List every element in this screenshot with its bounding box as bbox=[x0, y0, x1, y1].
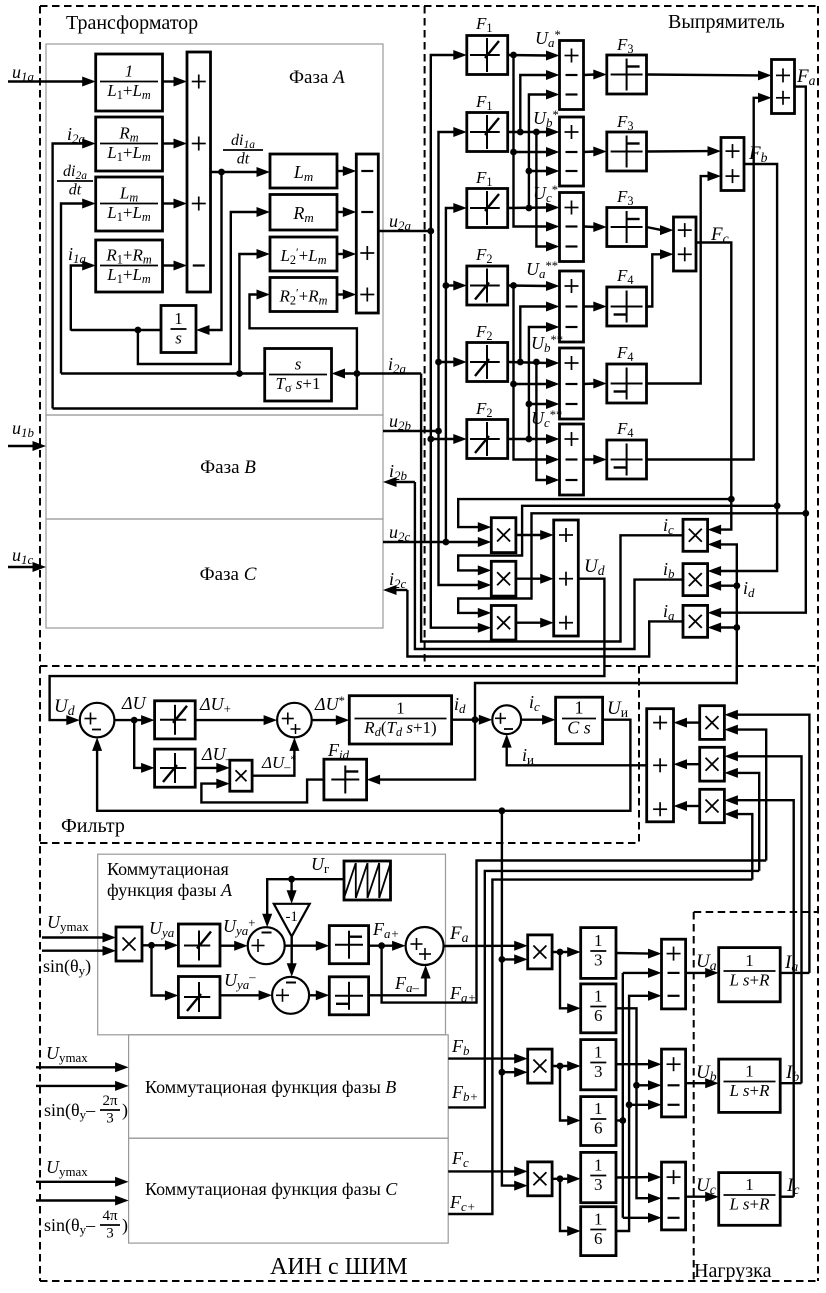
svg-text:Выпрямитель: Выпрямитель bbox=[668, 11, 785, 33]
sum Uc** bbox=[560, 424, 584, 495]
multiplier Xf1 (Ia*Fa+) bbox=[700, 706, 725, 740]
svg-text:АИН с ШИМ: АИН с ШИМ bbox=[270, 1254, 408, 1280]
node F2b down branch bbox=[533, 359, 540, 366]
F2 block b bbox=[467, 343, 508, 382]
svg-text:dt: dt bbox=[237, 150, 250, 167]
block dU- saturation bbox=[155, 749, 196, 787]
F3 block b bbox=[607, 132, 647, 171]
sum Ua out bbox=[662, 939, 686, 1009]
svg-text:sin(θу–: sin(θу– bbox=[44, 1100, 96, 1122]
wire id down to Fid bbox=[379, 720, 475, 780]
block 1/s bbox=[161, 306, 196, 353]
wire Rd block out to S3f bbox=[452, 719, 481, 721]
node F1c branch bbox=[526, 205, 533, 212]
svg-text:-1: -1 bbox=[285, 909, 298, 925]
wire u2c out (to multiplier M1) bbox=[383, 541, 479, 543]
multiplier filter bbox=[230, 760, 252, 791]
svg-text:1: 1 bbox=[575, 698, 584, 718]
sum Ua* bbox=[560, 41, 584, 110]
wire F4a to Fc sum row2 bbox=[647, 254, 662, 306]
wire 1/6c net (to Ua r3 / Ub r3) bbox=[616, 996, 650, 1231]
wire di2a/dt to Lm/(L1+Lm) bbox=[61, 204, 84, 374]
multiplier Mc (Fc*id=ic) bbox=[683, 519, 708, 551]
wire (R1+Rm)/(L1+Lm) to S1 bbox=[163, 264, 176, 266]
wire Ua* to F3a bbox=[584, 73, 595, 76]
stub F1a Ub* row2 bbox=[514, 151, 548, 153]
svg-text:1: 1 bbox=[745, 1062, 754, 1081]
wire Ui down to output multipliers bbox=[502, 811, 516, 960]
wire Uymax C bbox=[36, 1181, 117, 1183]
stub id Mb in2 bbox=[720, 585, 737, 587]
wire F2b to Ua** row2 bbox=[520, 307, 547, 363]
kommut A box bbox=[98, 854, 446, 1035]
node 1/6c net bbox=[626, 1101, 633, 1108]
wire Mb out to i2b return bbox=[415, 482, 683, 649]
wire 1/6b vertical bbox=[622, 973, 624, 1218]
wire M1 to Ud bbox=[516, 534, 542, 536]
node i1a bbox=[135, 327, 142, 334]
node 1/6a net bbox=[633, 1082, 640, 1089]
wire Uya down branch bbox=[152, 945, 167, 995]
F1 block c bbox=[467, 189, 508, 228]
node F1b down branch bbox=[533, 129, 540, 136]
wire F2b out to sum Ub** row1 bbox=[508, 362, 548, 363]
wire v2 to F2 block b bbox=[439, 361, 455, 363]
block 1/6 c bbox=[581, 1207, 616, 1256]
wire Ug to triangle and sum bbox=[267, 879, 344, 915]
wire s/(Ts+1) output di2a/dt bbox=[61, 372, 265, 374]
node v1 F2c tap bbox=[427, 436, 434, 443]
vertical u2b feed v2 bbox=[439, 132, 455, 431]
svg-text:3: 3 bbox=[106, 1111, 114, 1127]
wire H-line Fb bbox=[458, 506, 777, 571]
wire i1a lower branch to Rm bbox=[138, 212, 258, 364]
svg-text:1: 1 bbox=[125, 62, 134, 81]
wire mult out to S2f bottom bbox=[252, 749, 294, 775]
svg-text:Коммутационая: Коммутационая bbox=[107, 859, 229, 879]
wire S3f to 1/Cs bbox=[521, 719, 544, 721]
svg-text:ΔU: ΔU bbox=[121, 693, 147, 713]
wire sum Uc to load C bbox=[686, 1195, 707, 1197]
F4 block b bbox=[607, 364, 647, 403]
svg-text:3: 3 bbox=[594, 1062, 603, 1081]
wire sum A+ out to relay bbox=[285, 945, 318, 947]
node Ui branch down bbox=[499, 807, 506, 814]
wire dU+ to S2f bbox=[195, 719, 265, 721]
wire Ib to Xf2 bbox=[736, 756, 801, 1083]
sum Ub* bbox=[560, 117, 584, 186]
wire u1a input bbox=[8, 80, 84, 82]
wire Uc* to F3c bbox=[584, 225, 595, 228]
svg-text:1: 1 bbox=[594, 1210, 603, 1229]
svg-text:1: 1 bbox=[745, 951, 754, 970]
svg-text:sin(θу–: sin(θу– bbox=[44, 1215, 96, 1237]
phase B box bbox=[46, 415, 383, 519]
block dU+ saturation bbox=[155, 701, 196, 739]
block 1/3 c bbox=[581, 1152, 616, 1202]
node XaO branch bbox=[557, 949, 564, 956]
wire Uymax B bbox=[36, 1066, 117, 1068]
multiplier Mb (Fb*id=ib) bbox=[683, 564, 708, 596]
sum circle S3f bbox=[492, 705, 521, 734]
wire Fid out to mult second input bbox=[201, 780, 324, 803]
sawtooth teeth bbox=[344, 863, 356, 898]
wire relay to sum Fa circle bbox=[369, 945, 394, 947]
wire sum A- out to relay2 bbox=[309, 994, 317, 996]
wire S2f to Rd block bbox=[312, 719, 338, 721]
wire node down to 1/s input bbox=[208, 172, 222, 330]
svg-text:1: 1 bbox=[594, 1099, 603, 1118]
block Fid bbox=[324, 759, 367, 800]
wire Ui continue to Xb bbox=[502, 959, 516, 1072]
node Fb H-line tap bbox=[774, 502, 781, 509]
wire Lm/(L1+Lm) to S1 bbox=[163, 202, 176, 204]
wire XaO out to 1/3a bbox=[552, 951, 569, 953]
node F2a to Ub** row2 bbox=[510, 381, 517, 388]
wire id riser to Mc in2 bbox=[720, 544, 737, 684]
stub F2c Ub** row3 bbox=[529, 403, 548, 405]
wire Fb+ routing bbox=[448, 871, 759, 1108]
wire Fb output down to Mb in1 bbox=[720, 164, 778, 571]
node v1 u2a bbox=[427, 228, 434, 235]
svg-text:1: 1 bbox=[174, 309, 183, 328]
node id to Mb bbox=[733, 582, 740, 589]
F1 block a bbox=[467, 36, 508, 75]
vertical u2a feed v1 bbox=[431, 55, 455, 231]
wire u2b out bbox=[383, 430, 439, 432]
wire H-line Fa bbox=[458, 513, 806, 613]
wire S1 output to node di1a/dt bbox=[211, 171, 259, 173]
sum circle S1f bbox=[80, 703, 115, 738]
wire 1/6a net (to Ub r2 / Uc r2) bbox=[616, 1008, 650, 1198]
wire i1a to left riser bbox=[71, 329, 138, 331]
svg-text:Фаза А: Фаза А bbox=[289, 67, 345, 88]
wire triangle out to sum A- bbox=[291, 937, 293, 965]
node F1c to Ub* row3 bbox=[526, 168, 533, 175]
node F2c to Ub** row3 bbox=[526, 401, 533, 408]
wire F1b to Ua* row2 bbox=[520, 75, 547, 132]
wire 1/3a to sum Ua bbox=[616, 952, 650, 955]
block Rm/(L1+Lm) bbox=[96, 117, 163, 171]
v1 lower segment to F2c and M3 bbox=[431, 231, 480, 628]
kommut B box bbox=[129, 1035, 449, 1138]
wire Fb+ riser to Xf2 bbox=[736, 773, 759, 871]
block R'2+Rm bbox=[270, 278, 337, 312]
node F1a branch bbox=[510, 52, 517, 59]
block 1/(Rd(Tds+1)) bbox=[349, 696, 451, 744]
wire i2a to Rm/(L1+Lm) bbox=[53, 144, 84, 409]
wire u2a out bbox=[378, 230, 431, 232]
wire Ic to Xf3 bbox=[736, 800, 793, 1196]
svg-text:Фаза С: Фаза С bbox=[200, 564, 257, 585]
multiplier XaO bbox=[528, 935, 552, 969]
node Uya bbox=[148, 942, 155, 949]
sum Ud box bbox=[554, 520, 579, 636]
wire Ia to Xf1 bbox=[736, 715, 809, 973]
kommut C box bbox=[129, 1138, 449, 1243]
svg-text:Коммутационая функция фазы В: Коммутационая функция фазы В bbox=[145, 1077, 396, 1097]
wire Lm to S2 bbox=[337, 170, 344, 172]
sum Uc out bbox=[662, 1162, 686, 1230]
block Uya+ saturation bbox=[178, 924, 220, 966]
wire XA out bbox=[142, 944, 166, 946]
svg-text:dt: dt bbox=[69, 181, 82, 198]
F4 block a bbox=[607, 287, 647, 326]
load block B bbox=[719, 1059, 781, 1112]
wire 1/3b to sum Ub bbox=[616, 1063, 650, 1065]
block s/(T_sigma*s+1) bbox=[265, 349, 332, 402]
block (R1+Rm)/(L1+Lm) bbox=[96, 240, 163, 292]
node v2 F2b tap bbox=[435, 359, 442, 366]
wire sin B bbox=[36, 1085, 117, 1087]
svg-text:1: 1 bbox=[594, 1156, 603, 1175]
node Ug branch bbox=[288, 876, 295, 883]
block L'2+Lm bbox=[270, 237, 337, 271]
svg-text:Фаза В: Фаза В bbox=[200, 457, 256, 478]
multiplier M2 (u2b*Fb) bbox=[491, 561, 516, 596]
wire 1/s output bbox=[138, 329, 161, 331]
node F2b up branch bbox=[517, 359, 524, 366]
sum Fa bbox=[772, 60, 795, 114]
wire Fc to XcO bbox=[448, 1170, 516, 1172]
sum Fb bbox=[721, 138, 744, 191]
wire Fc+ riser to Xf3 bbox=[736, 814, 752, 880]
block Uya- saturation bbox=[178, 977, 220, 1018]
F2 block a bbox=[467, 266, 508, 305]
wire sin A input bbox=[42, 950, 104, 952]
wire F2c to Ua** row3 bbox=[529, 327, 548, 439]
wire u1b input bbox=[8, 445, 34, 447]
wire Ic out bbox=[780, 1195, 794, 1197]
node 1/6b net bbox=[619, 1117, 626, 1124]
node v2 u2b bbox=[435, 428, 442, 435]
wire F4c to Fa sum row2 bbox=[647, 98, 760, 460]
stub id Ma in2 bbox=[720, 626, 737, 628]
node XbO branch bbox=[557, 1063, 564, 1070]
wire F1c to Ua* row3 bbox=[529, 95, 548, 209]
wire ii from sum to S3f bottom bbox=[507, 746, 647, 765]
wire dU down branch bbox=[134, 720, 142, 768]
wire 1/3c to sum Uc bbox=[616, 1176, 650, 1179]
wire Rm/(L1+Lm) to S1 bbox=[163, 142, 176, 144]
svg-text:2π: 2π bbox=[102, 1093, 118, 1109]
block 1/Cs bbox=[556, 697, 603, 744]
node id bbox=[472, 716, 479, 723]
dashed outer frame bbox=[40, 5, 818, 7]
wire Ub** to F4b bbox=[584, 382, 595, 385]
wire sum Ua to load A bbox=[686, 972, 707, 974]
svg-text:6: 6 bbox=[594, 1006, 603, 1025]
dashed load box bbox=[694, 911, 818, 913]
svg-text:Нагрузка: Нагрузка bbox=[694, 1260, 772, 1282]
wire Ui continue to Xc bbox=[502, 1072, 516, 1185]
node v3 u2c bbox=[443, 539, 450, 546]
block 1/6 b bbox=[581, 1097, 616, 1146]
sum circle SFa bbox=[406, 927, 444, 965]
svg-text:Tσ s+1: Tσ s+1 bbox=[275, 374, 320, 395]
triangle -1 bbox=[274, 904, 310, 937]
dashed filter right edge bbox=[638, 666, 640, 843]
sum circle SA- bbox=[272, 977, 309, 1014]
wire Uya+ to sum A+ bbox=[220, 945, 236, 947]
wire di2a/dt to L'2+Lm bbox=[239, 254, 258, 374]
F4 block c bbox=[607, 440, 647, 479]
multiplier XA bbox=[116, 927, 142, 961]
svg-text:1: 1 bbox=[594, 987, 603, 1006]
sum Uc* bbox=[560, 193, 584, 262]
load block A bbox=[719, 948, 781, 1002]
wire Ui feedback bbox=[97, 720, 630, 811]
wire F1c out to sum Uc* row1 bbox=[508, 206, 548, 209]
wire Xf2 to Si bbox=[686, 763, 700, 765]
wire Ug into -1 triangle bbox=[290, 879, 292, 892]
node v3 F2a tap bbox=[443, 282, 450, 289]
svg-text:s: s bbox=[175, 328, 182, 347]
wire Fc+ routing bbox=[448, 880, 752, 1214]
multiplier M1 (u2c*Fc) bbox=[491, 518, 516, 553]
sum Fc bbox=[674, 217, 697, 271]
stub 1/6c to Ub row3 bbox=[629, 1104, 649, 1106]
node di2a/dt branch bbox=[236, 370, 243, 377]
block Lm/(L1+Lm) bbox=[96, 177, 163, 231]
node F1a to Ub* row2 bbox=[510, 149, 517, 156]
wire Ub* to F3b bbox=[584, 150, 595, 153]
wire Uymax A input bbox=[42, 936, 104, 938]
wire Ma out to i2c return bbox=[407, 590, 683, 657]
svg-text:6: 6 bbox=[594, 1118, 603, 1137]
node F2a branch bbox=[510, 282, 517, 289]
svg-text:s: s bbox=[295, 355, 302, 374]
wire Ud output down to filter bbox=[50, 579, 605, 720]
node Ui to Xc bbox=[499, 1069, 506, 1076]
vertical u2c feed v3 bbox=[446, 208, 455, 542]
wire Mc out to i2a return bbox=[421, 374, 683, 642]
wire F2c out to sum Uc** row1 bbox=[508, 438, 548, 440]
node di1a/dt bbox=[218, 169, 225, 176]
wire dU- to mult bbox=[195, 767, 218, 769]
svg-text:L s+R: L s+R bbox=[728, 1081, 770, 1100]
summator S2 box bbox=[356, 154, 378, 313]
sum Si box bbox=[647, 709, 674, 822]
stub 1/6b to Uc row3 bbox=[623, 1217, 650, 1219]
svg-text:3: 3 bbox=[594, 1175, 603, 1194]
block Lm bbox=[270, 154, 337, 188]
svg-text:L s+R: L s+R bbox=[728, 1194, 770, 1213]
sum Ua** bbox=[560, 271, 584, 342]
wire Uya- to sum A- bbox=[220, 994, 260, 996]
wire Ib out bbox=[780, 1082, 801, 1084]
F3 block c bbox=[607, 208, 647, 247]
dashed divider above filter bbox=[40, 665, 818, 667]
wire F1b out to sum Ub* row1 bbox=[508, 131, 548, 133]
multiplier XcO bbox=[528, 1162, 552, 1196]
summator S1 box bbox=[187, 52, 211, 292]
wire F3a to Fa sum bbox=[647, 73, 760, 76]
wire u1c input bbox=[8, 566, 34, 568]
svg-text:L s+R: L s+R bbox=[728, 970, 770, 989]
stub 1/6b to Ua row2 bbox=[623, 972, 650, 974]
wire XbO to 1/6b bbox=[560, 1066, 569, 1121]
phase A box bbox=[46, 44, 383, 415]
wire Xf1 to Si bbox=[686, 721, 700, 723]
svg-text:Коммутационая функция фазы С: Коммутационая функция фазы С bbox=[145, 1179, 398, 1199]
wire H-line Fc bbox=[458, 499, 731, 527]
wire v1 to F2 block c bbox=[431, 438, 455, 440]
block 1/6 a bbox=[581, 984, 616, 1033]
wire id up to rectifier bbox=[475, 666, 737, 720]
F2 block c bbox=[467, 420, 508, 459]
phase C box bbox=[46, 519, 383, 628]
node id to Ma bbox=[733, 624, 740, 631]
sum circle SA+ bbox=[248, 927, 285, 964]
svg-text:1: 1 bbox=[745, 1175, 754, 1194]
node Fa+ tap bbox=[378, 942, 385, 949]
wire XcO out to 1/3c bbox=[552, 1178, 569, 1180]
stub F1c Ub* row3 bbox=[529, 170, 548, 172]
wire Ia out bbox=[780, 972, 809, 974]
wire M3 to Ud bbox=[516, 622, 542, 624]
wire Fa+ riser to Xf1 bbox=[736, 730, 766, 861]
wire Xf3 to Si bbox=[686, 805, 700, 807]
wire F2a out to sum Ua** row1 bbox=[508, 284, 548, 287]
wire Fa to XaO bbox=[444, 945, 516, 948]
wire F2b to Uc** row3 bbox=[536, 362, 547, 480]
wire S1f out bbox=[114, 719, 142, 721]
wire XaO to 1/6a bbox=[560, 952, 569, 1008]
wire sum Ub to load B bbox=[686, 1082, 707, 1084]
node XcO branch bbox=[557, 1175, 564, 1182]
wire v3 to F2 block a bbox=[446, 284, 455, 286]
svg-text:3: 3 bbox=[594, 950, 603, 969]
F3 block a bbox=[607, 55, 647, 94]
wire Fa+ out of box bbox=[382, 861, 767, 1003]
wire L'2+Lm to S2 bbox=[337, 253, 344, 255]
sawtooth box bbox=[344, 861, 391, 900]
multiplier Xf3 (Ic*Fc+) bbox=[700, 789, 725, 822]
svg-text:C s: C s bbox=[567, 718, 591, 738]
wire F1a out to sum Ua* row1 bbox=[508, 54, 548, 57]
wire i2a branch down to bottom feed bbox=[53, 374, 357, 409]
wire Fa output down to Ma in1 bbox=[720, 87, 806, 613]
node Fc H-line tap bbox=[728, 496, 735, 503]
wire XbO out to 1/3b bbox=[552, 1065, 569, 1067]
wire i2b in bbox=[395, 481, 415, 483]
wire XcO to 1/6c bbox=[560, 1179, 569, 1231]
wire Fb to XbO bbox=[448, 1057, 516, 1059]
wire 1/6b net (to Ua r2 / Uc r3) bbox=[616, 1119, 623, 1121]
stub 1/6a to Ub row2 bbox=[637, 1084, 650, 1086]
wire F2a to Ub** row2 and Uc** row2 bbox=[514, 286, 548, 460]
wire 1/(L1+Lm) to S1 bbox=[163, 80, 176, 82]
multiplier Xf2 (Ib*Fb+) bbox=[700, 747, 725, 781]
stub F2a Ub** row2 bbox=[514, 383, 548, 385]
wire F1a to Ub* row2 and Uc* row2 bbox=[514, 55, 548, 227]
block 1/3 a bbox=[581, 928, 616, 979]
multiplier XbO bbox=[528, 1049, 552, 1083]
wire F3c to Fc sum bbox=[647, 227, 662, 230]
wire R'2+Rm to S2 bbox=[337, 293, 344, 295]
wire Fc output down to Mc in1 bbox=[696, 243, 731, 530]
wire Ua** to F4a bbox=[584, 305, 595, 307]
svg-text:3: 3 bbox=[106, 1226, 114, 1242]
node F2c branch bbox=[526, 436, 533, 443]
wire i2a to R'2+Rm bbox=[250, 295, 357, 374]
wire F1b to Uc* row3 bbox=[536, 132, 547, 247]
load block C bbox=[719, 1173, 781, 1226]
node F1b up branch bbox=[517, 129, 524, 136]
dashed divider below filter bbox=[40, 842, 639, 844]
wire F4b to Fb sum row2 bbox=[647, 176, 710, 383]
